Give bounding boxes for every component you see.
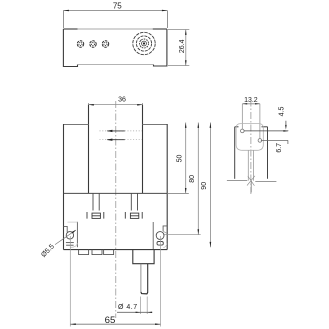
svg-text:80: 80 xyxy=(189,175,196,183)
plunger pin xyxy=(141,264,148,294)
side view: head outline xyxy=(235,127,268,179)
mounting hole right xyxy=(156,232,164,240)
svg-text:Ø 4.7: Ø 4.7 xyxy=(118,304,138,311)
mounting slot right xyxy=(153,222,167,249)
mounting hole left (Ø5.5) xyxy=(66,232,73,239)
bottom tab 1 xyxy=(79,250,89,255)
side view: center line xyxy=(250,100,252,197)
leader Ø5.5 xyxy=(55,230,76,244)
front view: center line xyxy=(115,101,117,318)
svg-text:50: 50 xyxy=(177,155,184,163)
svg-text:Ø5.5: Ø5.5 xyxy=(40,243,56,259)
dimension 26.4 (top view depth) xyxy=(168,30,189,66)
svg-text:36: 36 xyxy=(118,96,126,103)
leader line B (6.7) xyxy=(261,139,288,141)
svg-text:26.4: 26.4 xyxy=(179,39,186,53)
svg-text:65: 65 xyxy=(105,315,116,326)
dimension 36 / head top edge xyxy=(89,103,143,109)
dimension Ø4.7 (pin) xyxy=(141,297,148,315)
terminal legs right xyxy=(131,193,137,211)
body top edge xyxy=(64,192,168,194)
side view: mounting surface with break xyxy=(227,181,277,193)
svg-text:90: 90 xyxy=(201,182,208,190)
dimension 75 (top view overall width) xyxy=(63,11,167,29)
dimension 90 xyxy=(209,123,211,248)
dimension 50 xyxy=(167,192,189,194)
side view: dimension 13.2 xyxy=(242,104,260,139)
dimension 80 xyxy=(165,234,201,236)
terminal clamp left xyxy=(87,212,104,219)
wing top edges xyxy=(64,124,168,126)
bottom tab 3 xyxy=(104,250,114,255)
break symbol xyxy=(247,176,255,186)
movement arrow upper (inside head) xyxy=(100,130,143,132)
side view: hole 2 xyxy=(258,139,262,143)
slot mark below right hole xyxy=(157,242,163,246)
top view outline xyxy=(63,29,166,67)
head side edges xyxy=(89,105,143,193)
screw 3 (top view) xyxy=(102,41,108,47)
svg-text:4.5: 4.5 xyxy=(278,107,285,117)
connector (top view concentric circles) xyxy=(133,32,155,54)
svg-text:6.7: 6.7 xyxy=(276,143,283,153)
mounting slot left xyxy=(64,222,78,247)
side view: shaft xyxy=(248,150,253,180)
side view: hole 1 xyxy=(241,129,245,133)
dimension 65 (hole distance) xyxy=(70,236,160,327)
plunger housing xyxy=(133,250,154,264)
side view: plunger dome xyxy=(236,124,263,151)
thread marks below left hole xyxy=(66,243,74,246)
screw 1 (top view) xyxy=(77,41,83,47)
terminal clamp right xyxy=(125,212,142,219)
bottom tab 2 xyxy=(92,250,102,255)
terminal legs left xyxy=(93,193,99,211)
body outline xyxy=(64,124,168,250)
movement arrow lower (inside head) xyxy=(100,139,143,141)
leader line A (4.5) xyxy=(244,130,288,132)
screw 2 (top view) xyxy=(90,41,96,47)
svg-text:75: 75 xyxy=(113,1,122,10)
